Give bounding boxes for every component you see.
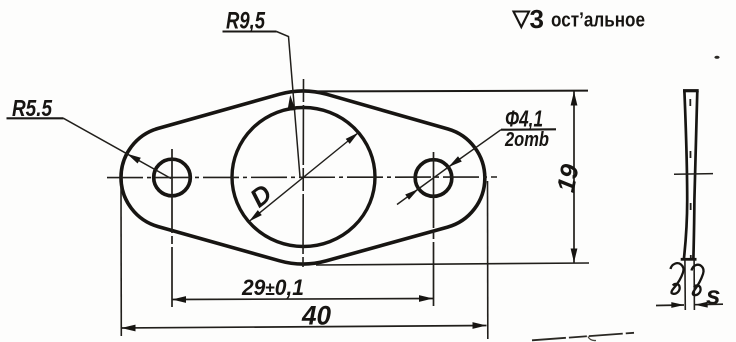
extension line bottom (19 dim) — [316, 263, 589, 265]
arrow R9,5 — [287, 95, 295, 111]
arrow 40 left — [122, 325, 136, 332]
arrow 19 top — [571, 92, 578, 106]
dimension line 19 — [573, 92, 575, 263]
arrow R5.5 — [127, 154, 141, 164]
arrow 29 right — [419, 295, 433, 302]
leader R9,5 underline — [223, 30, 277, 32]
svg-text:R5.5: R5.5 — [12, 95, 53, 121]
side view right edge — [693, 91, 697, 259]
stray bracket mark — [588, 337, 596, 341]
extension line right (40 dim) — [487, 181, 489, 339]
svg-text:остʼальное: остʼальное — [551, 10, 645, 32]
central hole circle D — [232, 108, 375, 247]
dimension line 40 — [122, 326, 487, 329]
side view inner dash-dot centerline — [689, 99, 692, 258]
extension line top (19 dim) — [310, 90, 588, 93]
leader R5.5 line — [64, 118, 172, 178]
arrow 19 bottom — [571, 249, 578, 263]
break squiggle right — [692, 265, 704, 296]
svg-text:Φ4,1: Φ4,1 — [505, 106, 543, 132]
arrow s left — [671, 302, 684, 308]
svg-text:D: D — [244, 178, 277, 213]
right hole centerline / extension — [433, 152, 435, 306]
arrow 29 left — [172, 296, 186, 303]
side view horizontal centerline — [674, 173, 713, 176]
arrow phi4,1 upper — [449, 156, 462, 167]
part outline (main view) — [121, 91, 485, 264]
arrow phi4,1 lower — [405, 189, 418, 200]
side view top cap — [683, 89, 699, 92]
svg-text:29±0,1: 29±0,1 — [241, 275, 304, 300]
left small hole — [154, 159, 191, 196]
extension line left (40 dim) — [120, 185, 122, 336]
stray drawing edge bottom right — [532, 333, 634, 341]
s dimension line left — [656, 304, 684, 307]
arrow D lower — [249, 210, 262, 221]
arrow s right — [695, 302, 708, 308]
svg-text:2omb: 2omb — [504, 129, 549, 151]
side view lower extension left — [684, 259, 686, 310]
break squiggle left — [671, 263, 684, 294]
side view bottom cap — [681, 258, 697, 261]
side view lower extension right — [693, 259, 695, 310]
left hole centerline / extension — [171, 149, 173, 307]
s dimension line right — [695, 303, 723, 306]
svg-text:R9,5: R9,5 — [226, 8, 265, 35]
arrow 40 right — [473, 322, 487, 329]
right small hole — [415, 160, 452, 197]
svg-text:s: s — [706, 280, 720, 310]
horizontal centerline — [107, 176, 497, 179]
scan speck top right — [714, 56, 719, 59]
leader R9,5 line — [277, 32, 301, 178]
leader phi4,1 line — [449, 130, 502, 167]
phi4,1 line through hole — [397, 167, 449, 205]
svg-text:40: 40 — [301, 301, 331, 331]
leader R5.5 underline — [7, 117, 64, 119]
side view left edge — [684, 91, 687, 259]
arrow D upper — [346, 133, 359, 144]
dimension line 29 — [172, 299, 433, 300]
surface finish triangle mark — [514, 12, 530, 28]
vertical centerline (part center) — [302, 79, 305, 267]
svg-text:19: 19 — [552, 162, 585, 195]
D diameter line — [249, 133, 359, 222]
svg-text:3: 3 — [530, 4, 544, 34]
leader phi4,1 shelf — [501, 128, 556, 130]
